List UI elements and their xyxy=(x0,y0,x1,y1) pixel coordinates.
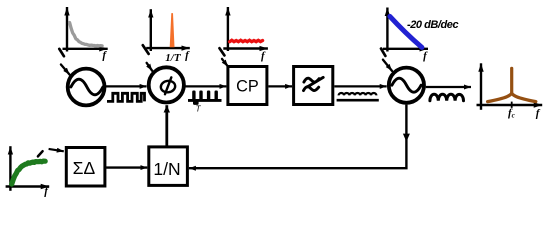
dashed arrow from orange graph into phase detector xyxy=(143,45,152,71)
wire charge pump to loop filter xyxy=(268,85,292,87)
dashed continuation of green curve xyxy=(38,151,43,156)
feedback downward arrowhead xyxy=(403,134,410,142)
gray noise curve xyxy=(70,23,103,47)
green rising noise curve xyxy=(12,161,46,184)
phase detector xyxy=(149,67,184,102)
reference spur spectrum graph (orange) axes xyxy=(146,9,190,51)
brown output spectrum curve xyxy=(488,93,536,101)
dashed arrow from red graph into charge pump xyxy=(220,48,229,66)
svg-text:-20 dB/dec: -20 dB/dec xyxy=(407,19,458,31)
svg-text:1/T: 1/T xyxy=(165,52,182,64)
PFD correction pulses symbol xyxy=(188,91,222,105)
feedback wire from VCO to divider xyxy=(189,105,407,169)
VCO xyxy=(389,68,424,103)
arrow from green graph into sigma-delta xyxy=(49,149,64,151)
blue -20dB/dec slope line xyxy=(390,16,422,47)
wire loop filter to VCO xyxy=(334,85,386,87)
svg-text:1/N: 1/N xyxy=(153,159,180,179)
divider output arrow into phase detector bottom xyxy=(165,105,168,146)
modulator noise graph (green) axes xyxy=(6,146,50,191)
output spectrum graph (brown) axes xyxy=(477,63,543,110)
control voltage ripple symbol xyxy=(339,93,377,95)
fc axis tick xyxy=(511,102,513,108)
VCO output wire xyxy=(426,86,471,88)
charge pump noise graph (red) axes xyxy=(223,7,268,51)
control voltage DC line xyxy=(337,99,379,102)
loop filter wave symbol xyxy=(304,77,324,90)
charge pump CP box xyxy=(228,67,267,105)
orange spur spike xyxy=(170,13,175,47)
reference oscillator xyxy=(68,69,105,106)
wire sigma-delta to divider xyxy=(106,166,147,168)
red flat noise line xyxy=(230,40,263,42)
loop filter box xyxy=(294,67,333,105)
dashed arrow from blue graph into VCO xyxy=(381,49,392,71)
svg-text:ΣΔ: ΣΔ xyxy=(73,158,96,178)
wire phase detector to charge pump xyxy=(185,85,226,87)
VCO sine symbol xyxy=(392,78,421,92)
divider 1/N box xyxy=(149,147,188,186)
oscillator sine symbol xyxy=(71,79,103,95)
svg-text:CP: CP xyxy=(236,78,259,96)
wire oscillator to phase detector xyxy=(106,85,147,87)
reference noise PSD graph (gray) axes xyxy=(63,7,108,52)
sigma-delta modulator box xyxy=(66,148,105,187)
square wave symbol xyxy=(107,93,145,101)
VCO output sine squiggle xyxy=(430,94,464,100)
VCO phase noise graph (blue) axes xyxy=(383,8,428,52)
dashed arrow from gray graph into oscillator xyxy=(59,49,69,75)
phase detector phi symbol xyxy=(160,77,176,94)
